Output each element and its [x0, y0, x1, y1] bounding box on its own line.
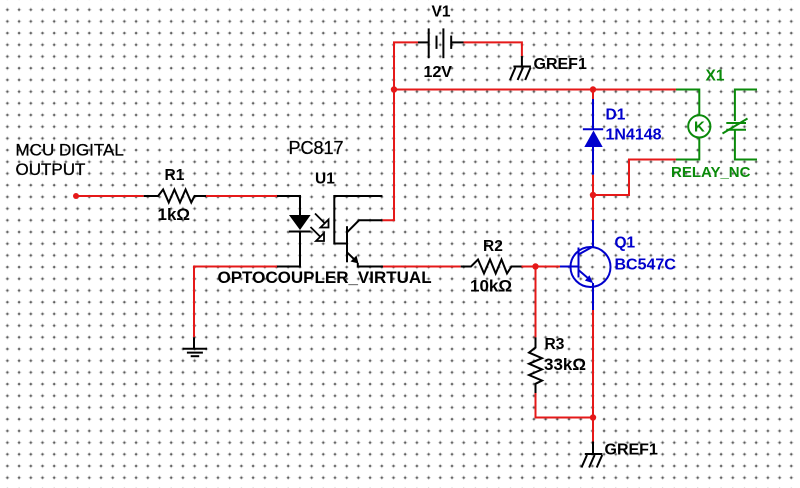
- wire opto emitter to R2: [383, 266, 461, 268]
- diode D1 1N4148: [583, 99, 603, 175]
- battery V1: [418, 28, 464, 58]
- svg-text:R1: R1: [165, 167, 185, 184]
- svg-text:RELAY_NC: RELAY_NC: [671, 164, 751, 181]
- wire R1 to optocoupler anode: [206, 195, 277, 197]
- svg-text:R3: R3: [545, 336, 565, 353]
- ground GREF1 (bottom): [582, 442, 603, 468]
- wire R3 bottom to emitter junction: [536, 393, 594, 418]
- collector lead: [347, 220, 382, 232]
- svg-text:U1: U1: [315, 170, 335, 187]
- svg-text:33kΩ: 33kΩ: [544, 355, 586, 374]
- base bracket: [334, 196, 382, 244]
- svg-text:V1: V1: [432, 3, 451, 20]
- svg-text:MCU DIGITAL: MCU DIGITAL: [16, 141, 124, 160]
- wire D1 bottom to junction: [592, 175, 594, 195]
- resistor R3: [529, 337, 542, 393]
- junction dot MCU terminal: [73, 193, 79, 199]
- svg-text:PC817: PC817: [289, 138, 344, 158]
- relay X1 coil: [676, 90, 710, 160]
- ground GREF1 (top): [510, 56, 531, 80]
- junction R2/R3/base: [532, 263, 538, 269]
- wire R2 junction down to R3: [535, 267, 537, 338]
- svg-text:GREF1: GREF1: [605, 442, 658, 459]
- optocoupler light arrows: [311, 214, 329, 242]
- base bar: [346, 226, 348, 262]
- svg-text:Q1: Q1: [615, 234, 636, 251]
- wire junction to Q1 collector: [592, 195, 594, 220]
- wire battery right to GREF1 (top): [464, 42, 522, 56]
- transistor Q1 BC547C: [560, 220, 611, 310]
- junction rail/D1: [590, 86, 596, 92]
- resistor R1: [144, 190, 206, 203]
- wire Q1 emitter down to GREF1: [592, 310, 594, 442]
- svg-text:1N4148: 1N4148: [606, 127, 662, 144]
- junction D1/relay/Q1: [590, 192, 596, 198]
- wire opto cathode to ground (left): [194, 267, 277, 338]
- resistor R2: [461, 260, 522, 274]
- wire MCU output to R1: [76, 195, 144, 197]
- wire D1 junction to relay coil return: [593, 160, 676, 196]
- wire +12V rail: [394, 89, 676, 91]
- junction R3/emitter: [590, 414, 596, 420]
- ground (left): [183, 337, 207, 356]
- svg-text:OPTOCOUPLER_VIRTUAL: OPTOCOUPLER_VIRTUAL: [218, 268, 432, 287]
- svg-text:12V: 12V: [424, 64, 453, 81]
- wire battery left to opto collector (vertical x=394): [382, 42, 418, 220]
- svg-text:D1: D1: [606, 106, 626, 123]
- junction battery/rail: [391, 86, 397, 92]
- svg-text:1kΩ: 1kΩ: [158, 205, 191, 224]
- emitter arrowhead: [351, 256, 359, 264]
- Q1 emitter arrowhead: [585, 275, 593, 283]
- svg-text:R2: R2: [483, 238, 503, 255]
- svg-text:GREF1: GREF1: [534, 56, 587, 73]
- svg-text:OUTPUT: OUTPUT: [16, 160, 86, 179]
- svg-text:X1: X1: [706, 68, 725, 85]
- svg-text:10kΩ: 10kΩ: [470, 276, 512, 295]
- svg-text:K: K: [694, 119, 705, 136]
- svg-text:BC547C: BC547C: [615, 257, 677, 274]
- emitter lead: [347, 252, 357, 261]
- relay X1 NC contact: [723, 90, 758, 160]
- optocoupler U1 LED: [277, 196, 311, 267]
- wire D1 top stub: [592, 90, 594, 100]
- wire R2 to Q1 base: [522, 266, 561, 268]
- optocoupler U1 phototransistor: [334, 196, 383, 267]
